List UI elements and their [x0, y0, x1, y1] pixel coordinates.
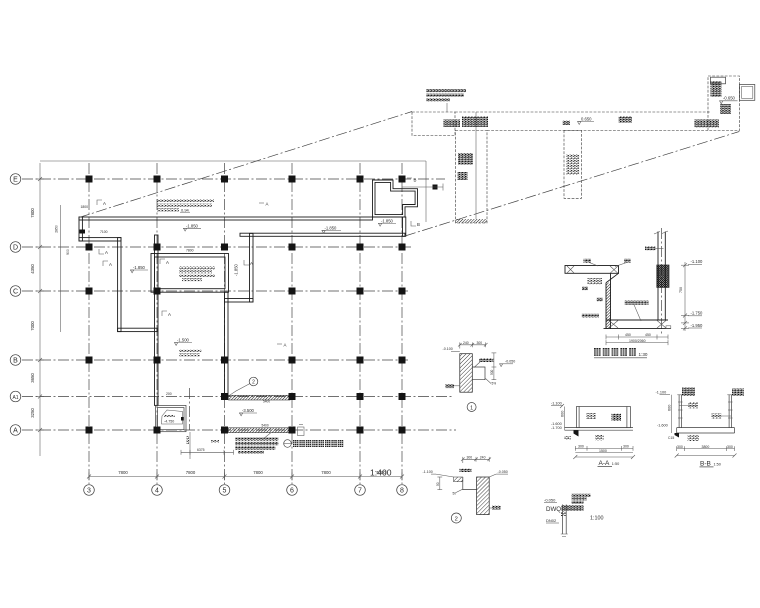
svg-text:D: D — [13, 245, 18, 252]
svg-text:5: 5 — [223, 488, 227, 495]
svg-text:7: 7 — [358, 488, 362, 495]
svg-text:5400: 5400 — [262, 424, 269, 428]
svg-text:-1.850: -1.850 — [381, 218, 394, 223]
svg-text:450: 450 — [625, 333, 631, 337]
svg-text:900: 900 — [66, 249, 70, 255]
svg-text:300: 300 — [578, 445, 584, 449]
svg-text:B: B — [417, 222, 420, 227]
svg-text:1:400: 1:400 — [370, 468, 392, 478]
svg-text:1800: 1800 — [81, 205, 89, 209]
svg-text:A-A: A-A — [599, 460, 611, 467]
svg-text:C15: C15 — [668, 436, 674, 440]
svg-text:2: 2 — [252, 380, 255, 386]
svg-text:5400: 5400 — [263, 399, 270, 403]
svg-text:1:50: 1:50 — [714, 462, 721, 466]
svg-text:-1.850: -1.850 — [133, 265, 146, 270]
svg-text:240: 240 — [463, 341, 469, 345]
svg-text:A: A — [266, 202, 269, 207]
svg-text:-1.100: -1.100 — [691, 259, 704, 264]
svg-text:A: A — [103, 201, 106, 206]
svg-text:-1.600: -1.600 — [657, 424, 668, 428]
svg-text:-1.850: -1.850 — [186, 223, 199, 228]
svg-text:6: 6 — [290, 488, 294, 495]
svg-text:B: B — [414, 178, 417, 183]
svg-text:-1.950: -1.950 — [691, 323, 704, 328]
svg-text:5%: 5% — [492, 382, 497, 386]
svg-text:1: 1 — [470, 405, 473, 411]
svg-text:7000: 7000 — [30, 321, 35, 331]
svg-text:1:100: 1:100 — [590, 515, 604, 521]
svg-text:-1.100: -1.100 — [551, 402, 562, 406]
svg-text:7800: 7800 — [253, 470, 263, 475]
svg-text:B: B — [13, 358, 18, 365]
svg-text:A: A — [13, 428, 18, 435]
svg-text:3: 3 — [87, 488, 91, 495]
svg-text:300: 300 — [677, 445, 683, 449]
svg-text:3650: 3650 — [30, 373, 35, 383]
svg-text:0.650: 0.650 — [581, 116, 592, 121]
svg-text:6375: 6375 — [197, 448, 205, 452]
svg-text:-0.050: -0.050 — [544, 497, 556, 502]
svg-text:-1.850: -1.850 — [234, 263, 239, 276]
svg-text:750: 750 — [679, 287, 683, 293]
svg-text:DN02: DN02 — [546, 518, 557, 523]
svg-text:7800: 7800 — [30, 208, 35, 218]
svg-text:1500: 1500 — [599, 449, 607, 453]
svg-text:7800: 7800 — [186, 470, 196, 475]
svg-text:-3.500: -3.500 — [242, 408, 255, 413]
svg-text:600: 600 — [668, 405, 672, 411]
svg-text:-0.050: -0.050 — [498, 470, 508, 474]
svg-text:50: 50 — [436, 482, 440, 486]
svg-text:-1.100: -1.100 — [656, 391, 667, 395]
svg-text:1:50: 1:50 — [612, 462, 619, 466]
svg-text:A: A — [168, 312, 171, 317]
svg-text:200: 200 — [166, 392, 172, 396]
svg-text:2: 2 — [455, 516, 458, 522]
svg-text:300: 300 — [727, 445, 733, 449]
svg-text:300: 300 — [467, 455, 473, 459]
svg-text:450: 450 — [645, 333, 651, 337]
svg-text:A: A — [250, 261, 253, 266]
svg-text:-0.100: -0.100 — [443, 347, 453, 351]
svg-text:600: 600 — [561, 411, 565, 417]
svg-text:-4.750: -4.750 — [164, 420, 174, 424]
svg-text:B-B: B-B — [700, 460, 711, 467]
svg-text:300: 300 — [477, 341, 483, 345]
svg-text:300: 300 — [623, 445, 629, 449]
svg-text:-1.850: -1.850 — [325, 226, 338, 231]
svg-text:A: A — [166, 260, 169, 265]
svg-text:1:30: 1:30 — [639, 352, 648, 357]
svg-text:7800: 7800 — [118, 470, 128, 475]
svg-text:3800: 3800 — [702, 445, 710, 449]
svg-text:A: A — [284, 343, 287, 348]
svg-text:A: A — [105, 250, 108, 255]
svg-text:4: 4 — [155, 488, 159, 495]
svg-text:4350: 4350 — [30, 264, 35, 274]
svg-text:A1: A1 — [12, 395, 18, 401]
svg-text:7800: 7800 — [321, 470, 331, 475]
svg-text:8: 8 — [400, 488, 404, 495]
svg-text:-1.700: -1.700 — [551, 426, 562, 430]
svg-text:-1.750: -1.750 — [691, 311, 704, 316]
svg-text:-0.050: -0.050 — [505, 359, 515, 363]
svg-text:2850: 2850 — [55, 225, 59, 233]
svg-text:7100: 7100 — [100, 230, 108, 234]
svg-text:E: E — [13, 177, 18, 184]
svg-text:-1.600: -1.600 — [551, 422, 562, 426]
svg-text:-1.500: -1.500 — [177, 338, 190, 343]
svg-text:1900/2060: 1900/2060 — [629, 339, 646, 343]
svg-text:DWQ: DWQ — [546, 506, 561, 513]
svg-text:500: 500 — [490, 369, 494, 375]
svg-text:50: 50 — [453, 492, 457, 496]
svg-text:A: A — [109, 262, 112, 267]
svg-text:240: 240 — [480, 455, 486, 459]
svg-text:7800: 7800 — [186, 249, 194, 253]
svg-text:C: C — [13, 289, 18, 296]
svg-text:3250: 3250 — [30, 408, 35, 418]
svg-text:0.94: 0.94 — [181, 207, 190, 212]
svg-text:-0.650: -0.650 — [723, 96, 736, 101]
svg-text:-1.100: -1.100 — [423, 470, 433, 474]
